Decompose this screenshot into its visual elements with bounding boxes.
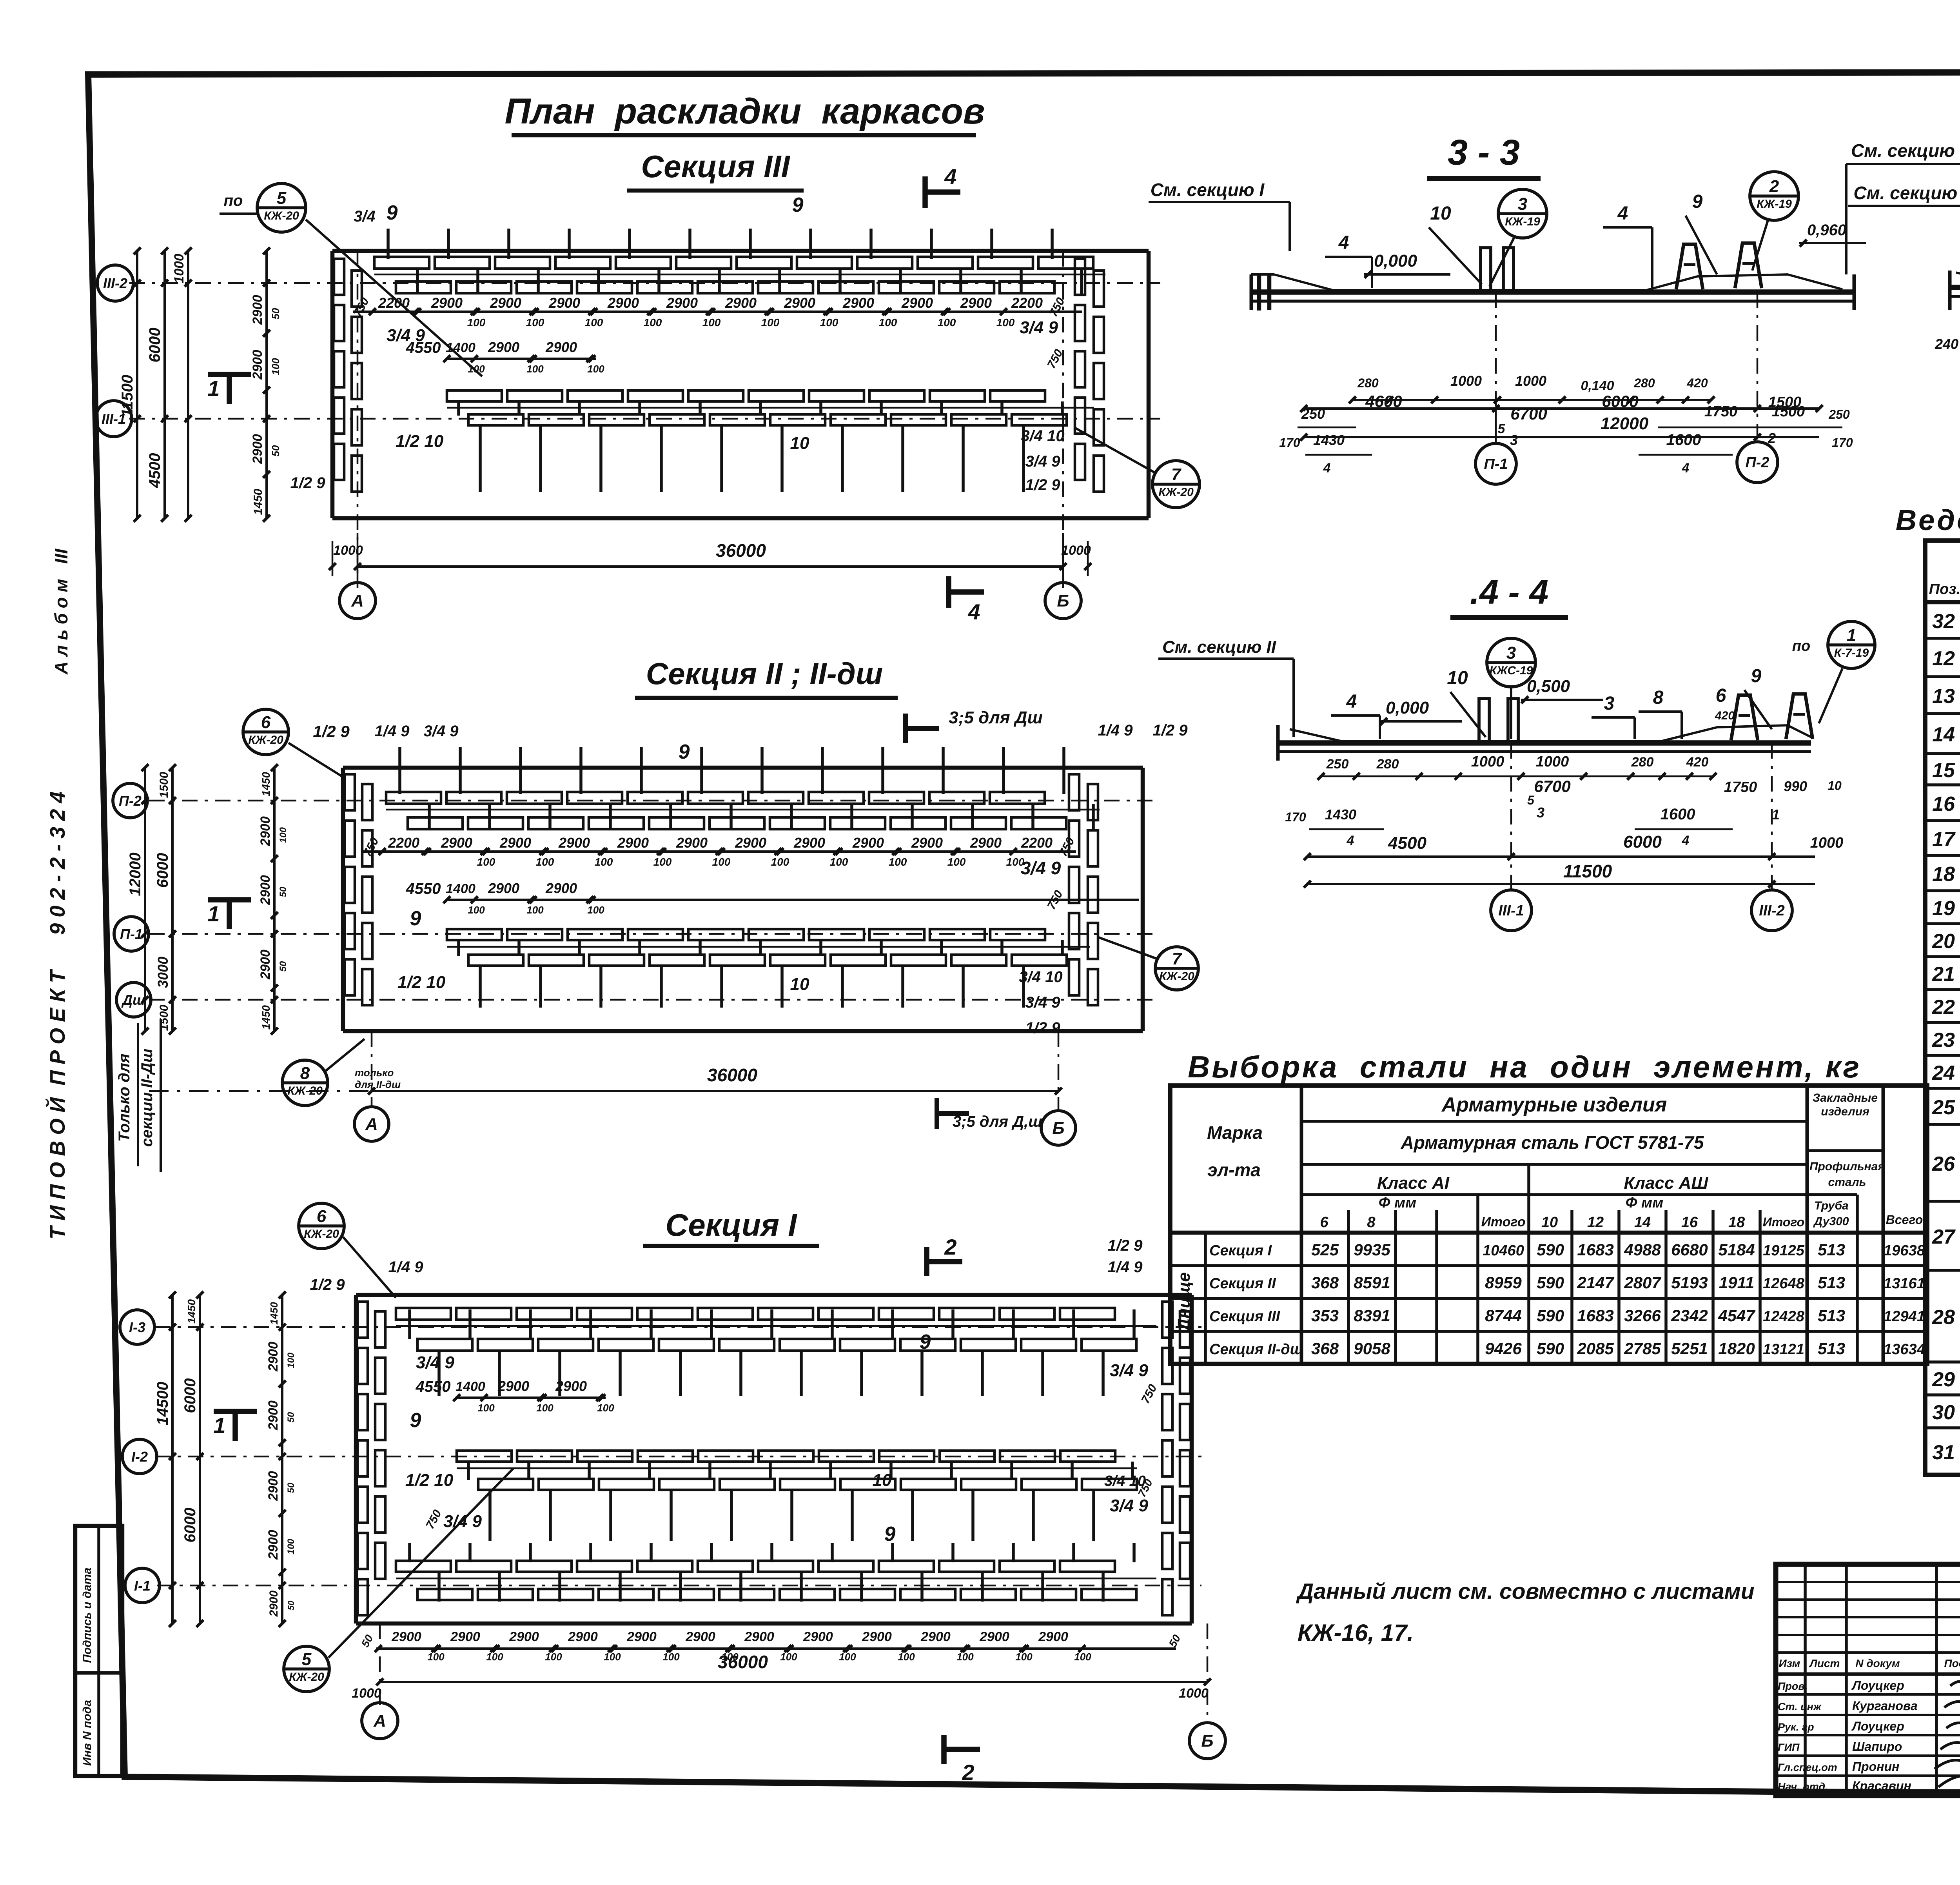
svg-text:100: 100 <box>820 316 838 329</box>
svg-text:14500: 14500 <box>154 1382 171 1425</box>
svg-text:9426: 9426 <box>1485 1339 1522 1358</box>
plan III axis circle B <box>1045 583 1081 619</box>
svg-text:590: 590 <box>1537 1273 1564 1292</box>
svg-text:0,000: 0,000 <box>1386 698 1429 717</box>
svg-text:1600: 1600 <box>1666 431 1701 449</box>
svg-text:3/4 9: 3/4 9 <box>1025 994 1061 1011</box>
svg-text:См. секцию I: См. секцию I <box>1151 180 1265 200</box>
plan view Sektsiya III band outline <box>332 149 1149 518</box>
section 5-5 see section III note <box>1846 140 1960 274</box>
plan I bottom 36000 dimension <box>352 1652 1211 1701</box>
plan III band inner chord lines <box>374 274 1105 408</box>
svg-text:Б: Б <box>1052 1119 1064 1138</box>
svg-text:1: 1 <box>1847 626 1856 645</box>
svg-text:7: 7 <box>1171 465 1182 484</box>
svg-text:1000: 1000 <box>172 254 187 283</box>
svg-text:2900: 2900 <box>266 1400 281 1431</box>
svg-text:2200: 2200 <box>388 835 419 851</box>
svg-text:100: 100 <box>278 827 289 843</box>
section 4-4 axis circle III-2 <box>1751 743 1792 931</box>
plan view Sektsiya II title <box>635 656 898 698</box>
svg-text:КЖ-20: КЖ-20 <box>1158 486 1194 499</box>
svg-text:420: 420 <box>1686 755 1709 770</box>
svg-text:1430: 1430 <box>1313 432 1345 448</box>
svg-text:2900: 2900 <box>617 835 649 851</box>
svg-text:4547: 4547 <box>1718 1306 1755 1325</box>
plan II axis circle B bottom <box>1041 1111 1076 1145</box>
svg-text:100: 100 <box>604 1651 621 1663</box>
svg-text:100: 100 <box>839 1651 856 1663</box>
svg-text:513: 513 <box>1818 1273 1845 1292</box>
svg-text:21: 21 <box>1932 963 1955 986</box>
svg-text:12648: 12648 <box>1763 1275 1805 1292</box>
svg-text:Арматурная сталь ГОСТ 5781-75: Арматурная сталь ГОСТ 5781-75 <box>1401 1132 1704 1153</box>
section 4-4 posts <box>1479 699 1518 742</box>
plan II bottom mark 3-5 for Dsh <box>937 1098 1042 1130</box>
svg-text:11500: 11500 <box>119 375 136 417</box>
svg-text:1000: 1000 <box>1515 373 1546 389</box>
title block left labels <box>1778 1657 1960 1793</box>
svg-text:Поз.: Поз. <box>1929 581 1960 597</box>
svg-text:2900: 2900 <box>258 816 273 846</box>
svg-text:100: 100 <box>270 358 281 375</box>
svg-text:3/4 9: 3/4 9 <box>1020 318 1058 337</box>
svg-text:Нач. отд.: Нач. отд. <box>1778 1781 1828 1792</box>
plan I axis lines <box>155 1327 1207 1717</box>
svg-text:3/4 10: 3/4 10 <box>1019 968 1062 986</box>
plan I left dim chains <box>154 1291 296 1627</box>
svg-text:См. секцию III: См. секцию III <box>1851 140 1960 161</box>
svg-text:I-2: I-2 <box>131 1449 148 1465</box>
svg-text:13121: 13121 <box>1763 1341 1804 1358</box>
svg-text:12941: 12941 <box>1884 1308 1925 1325</box>
svg-text:8959: 8959 <box>1485 1273 1522 1292</box>
svg-text:6700: 6700 <box>1534 777 1570 795</box>
svg-text:1750: 1750 <box>1704 403 1738 420</box>
section 4-4 leader circle 3 KZh-19 <box>1487 638 1535 739</box>
svg-text:50: 50 <box>270 308 281 319</box>
section 4-4 trestles right <box>1731 694 1813 740</box>
svg-text:280: 280 <box>1357 376 1379 390</box>
plan II inner labels <box>313 722 1188 1037</box>
svg-text:250: 250 <box>1828 407 1850 421</box>
plan I left end vertical cages <box>358 1302 385 1615</box>
svg-text:100: 100 <box>1074 1651 1091 1663</box>
svg-text:27: 27 <box>1932 1226 1956 1248</box>
svg-text:III-2: III-2 <box>1759 903 1784 919</box>
plan I band inner chord lines <box>396 1326 1156 1578</box>
section 3-3 labels above <box>1325 191 1866 288</box>
svg-text:2900: 2900 <box>960 295 992 311</box>
svg-text:2900: 2900 <box>970 835 1002 851</box>
svg-text:2900: 2900 <box>499 835 531 851</box>
svg-text:8391: 8391 <box>1354 1306 1390 1325</box>
plan II axis lines <box>149 801 1152 1110</box>
svg-text:1000: 1000 <box>1536 754 1569 770</box>
plan II axis circle A bottom <box>354 1107 389 1141</box>
svg-text:ГИП: ГИП <box>1778 1742 1800 1753</box>
svg-text:КЖС-19: КЖС-19 <box>1490 664 1533 677</box>
svg-text:Лист: Лист <box>1809 1657 1840 1669</box>
svg-text:А л ь б о м III: А л ь б о м III <box>51 548 71 675</box>
svg-text:См. секцию II: См. секцию II <box>1853 183 1960 203</box>
svg-text:4: 4 <box>1338 232 1349 253</box>
svg-text:16: 16 <box>1932 793 1955 815</box>
plan III leader circle 5 KZh-20 <box>220 183 482 376</box>
svg-text:3;5 для Д,ш: 3;5 для Д,ш <box>953 1113 1042 1130</box>
svg-text:Ведомость стержней на 1 эле: Ведомость стержней на 1 элемент <box>1896 504 1960 536</box>
section 3-3 slab <box>1251 274 1854 310</box>
svg-text:100: 100 <box>889 856 907 868</box>
svg-text:10460: 10460 <box>1483 1242 1524 1259</box>
svg-text:КЖ-20: КЖ-20 <box>248 734 283 746</box>
plan I axis circle A bottom <box>362 1703 398 1739</box>
svg-text:6000: 6000 <box>1602 392 1638 410</box>
svg-text:2900: 2900 <box>431 295 463 311</box>
svg-text:3/4 9: 3/4 9 <box>424 723 459 740</box>
svg-text:50: 50 <box>270 445 281 456</box>
svg-text:29: 29 <box>1932 1368 1955 1391</box>
svg-text:5: 5 <box>277 189 287 208</box>
section 3-3 axis circle P-1 <box>1475 292 1516 484</box>
svg-text:2900: 2900 <box>558 835 590 851</box>
svg-text:Шапиро: Шапиро <box>1852 1740 1902 1754</box>
svg-text:1/4 9: 1/4 9 <box>1108 1258 1143 1276</box>
svg-text:1: 1 <box>207 901 220 926</box>
plan II top cage rows <box>386 747 1093 830</box>
svg-text:10: 10 <box>1447 668 1468 688</box>
svg-text:КЖ-19: КЖ-19 <box>1505 215 1540 228</box>
svg-text:525: 525 <box>1311 1240 1339 1259</box>
svg-text:36000: 36000 <box>718 1652 768 1672</box>
plan III axis circle III-2 <box>97 265 133 301</box>
svg-text:Красавин: Красавин <box>1852 1779 1911 1793</box>
svg-text:Только для: Только для <box>116 1054 133 1142</box>
svg-text:Секция III: Секция III <box>1209 1308 1281 1325</box>
svg-text:4550: 4550 <box>406 880 441 897</box>
svg-text:Днище: Днище <box>1174 1272 1194 1333</box>
section 4-4 slab <box>1278 725 1811 761</box>
plan I axis circle B bottom <box>1189 1723 1225 1759</box>
svg-text:170: 170 <box>1832 436 1853 450</box>
svg-text:100: 100 <box>526 363 544 375</box>
svg-text:1/2 9: 1/2 9 <box>1025 1019 1061 1037</box>
plan II top dimension chain <box>361 835 1077 868</box>
svg-text:3/4 9: 3/4 9 <box>1110 1496 1148 1515</box>
left margin vertical text: album <box>51 548 71 675</box>
svg-text:0,000: 0,000 <box>1374 251 1417 271</box>
svg-text:100: 100 <box>595 856 613 868</box>
svg-text:100: 100 <box>712 856 731 868</box>
svg-text:III-1: III-1 <box>1498 903 1524 919</box>
svg-text:513: 513 <box>1818 1339 1845 1358</box>
svg-text:КЖ-20: КЖ-20 <box>1159 970 1194 983</box>
plan I inner labels <box>310 1237 1160 1545</box>
svg-text:10: 10 <box>790 975 809 994</box>
svg-text:1400: 1400 <box>456 1379 485 1394</box>
section 4-4 overall dims <box>1304 832 1843 888</box>
svg-text:0,960: 0,960 <box>1807 222 1846 239</box>
svg-text:сталь: сталь <box>1828 1176 1866 1189</box>
plan I right end vertical cages <box>1162 1302 1190 1615</box>
svg-text:1911: 1911 <box>1719 1273 1754 1292</box>
svg-text:7: 7 <box>1172 949 1183 968</box>
svg-text:2900: 2900 <box>548 295 580 311</box>
svg-text:5: 5 <box>302 1650 312 1669</box>
svg-text:8: 8 <box>300 1064 310 1083</box>
svg-text:Инв N пода: Инв N пода <box>81 1700 94 1766</box>
svg-text:100: 100 <box>947 856 966 868</box>
svg-text:1500: 1500 <box>158 772 171 798</box>
svg-text:П-1: П-1 <box>1484 456 1508 472</box>
svg-text:0,140: 0,140 <box>1581 378 1614 393</box>
svg-text:20: 20 <box>1932 930 1955 953</box>
svg-text:1450: 1450 <box>260 772 272 796</box>
svg-text:2900: 2900 <box>509 1629 539 1644</box>
svg-text:36000: 36000 <box>716 540 766 561</box>
title block left grid <box>1776 1564 1960 1796</box>
svg-text:280: 280 <box>1376 757 1399 772</box>
svg-text:22: 22 <box>1932 996 1955 1019</box>
svg-text:5: 5 <box>1527 793 1535 807</box>
svg-text:4550: 4550 <box>416 1378 451 1395</box>
svg-text:30: 30 <box>1932 1401 1955 1424</box>
svg-text:КЖ-16, 17.: КЖ-16, 17. <box>1298 1620 1414 1646</box>
svg-text:25: 25 <box>1932 1096 1955 1119</box>
svg-text:1000: 1000 <box>1810 835 1844 851</box>
svg-text:1450: 1450 <box>260 1005 272 1030</box>
plan III axis lines <box>129 251 1160 588</box>
note: see sheets KZh-16-17 <box>1296 1579 1755 1646</box>
plan III middle cage rows <box>447 390 1067 492</box>
svg-text:2900: 2900 <box>735 835 766 851</box>
svg-text:Выборка стали на один элем: Выборка стали на один элемент, кг <box>1188 1050 1861 1084</box>
svg-text:2900: 2900 <box>862 1629 892 1644</box>
table vyborka row values <box>1209 1240 1926 1358</box>
plan II band outline <box>343 768 1143 1031</box>
svg-text:2807: 2807 <box>1624 1273 1661 1292</box>
svg-text:50: 50 <box>286 1600 296 1610</box>
svg-text:I-3: I-3 <box>129 1319 145 1335</box>
svg-text:2900: 2900 <box>490 295 521 311</box>
plan II left dim chains <box>127 764 289 1035</box>
svg-text:3: 3 <box>1510 432 1518 448</box>
svg-text:2900: 2900 <box>250 350 265 380</box>
svg-text:2900: 2900 <box>725 295 757 311</box>
svg-text:50: 50 <box>278 961 289 972</box>
section 4-4 axis circle III-1 <box>1491 743 1532 931</box>
plan II cut mark 1 <box>207 900 251 929</box>
svg-text:Т И П О В О Й П Р О Е К Т: Т И П О В О Й П Р О Е К Т 9 0 2 - 2 - 3 … <box>45 792 69 1240</box>
section 5-5 slab <box>1950 271 1960 310</box>
svg-text:Данный лист см. совместно с л: Данный лист см. совместно с листами <box>1296 1579 1755 1604</box>
svg-text:Подпись: Подпись <box>1944 1657 1960 1669</box>
svg-text:4: 4 <box>1617 203 1628 224</box>
table vedomost title <box>1896 504 1960 536</box>
svg-text:100: 100 <box>286 1538 296 1554</box>
svg-text:6000: 6000 <box>181 1378 199 1413</box>
svg-text:1/4 9: 1/4 9 <box>1098 722 1133 739</box>
svg-text:2900: 2900 <box>266 1342 281 1372</box>
svg-text:1: 1 <box>213 1413 225 1438</box>
plan II leader circle 6 KZh-20 <box>243 709 345 778</box>
svg-text:100: 100 <box>938 316 956 329</box>
svg-text:Лоуцкер: Лоуцкер <box>1851 1719 1904 1733</box>
svg-text:1450: 1450 <box>252 489 265 515</box>
svg-text:3/4 9: 3/4 9 <box>1021 858 1061 878</box>
section 5-5 dim rows <box>1935 302 1960 427</box>
svg-text:19125: 19125 <box>1763 1242 1805 1259</box>
svg-text:353: 353 <box>1311 1306 1339 1325</box>
plan I band outline <box>356 1295 1192 1623</box>
main title <box>505 91 985 135</box>
svg-text:3;5 для Дш: 3;5 для Дш <box>949 708 1042 727</box>
left margin vertical text: project number <box>45 792 69 1240</box>
plan III leader circle 7 KZh-20 <box>1074 427 1200 508</box>
svg-text:А: А <box>373 1711 386 1731</box>
svg-text:3 - 3: 3 - 3 <box>1448 133 1520 173</box>
svg-text:2900: 2900 <box>488 880 519 896</box>
svg-text:1000: 1000 <box>1061 543 1091 558</box>
plan I top cage rows <box>396 1308 1136 1396</box>
svg-text:17: 17 <box>1932 828 1956 851</box>
section 4-4 dim rows <box>1285 754 1842 848</box>
table vedomost grid <box>1925 541 1960 1475</box>
svg-text:2147: 2147 <box>1577 1273 1614 1292</box>
svg-text:513: 513 <box>1818 1306 1845 1325</box>
section 4-4 leader line from see note <box>1292 717 1295 737</box>
svg-text:П-2: П-2 <box>119 793 142 809</box>
svg-text:4: 4 <box>1682 833 1690 848</box>
svg-text:3/4 9: 3/4 9 <box>416 1353 454 1372</box>
svg-text:3: 3 <box>1518 194 1527 214</box>
bottom-left stamp box <box>75 1526 122 1776</box>
svg-text:Класс АI: Класс АI <box>1377 1173 1450 1193</box>
svg-text:Дш: Дш <box>121 992 145 1008</box>
svg-text:9: 9 <box>1692 191 1703 212</box>
svg-text:1/4 9: 1/4 9 <box>375 723 410 740</box>
plan I middle cage rows <box>457 1451 1137 1541</box>
svg-text:2900: 2900 <box>450 1629 480 1644</box>
svg-text:эл-та: эл-та <box>1207 1160 1261 1180</box>
svg-text:К-7-19: К-7-19 <box>1834 646 1869 659</box>
svg-text:См. секцию II: См. секцию II <box>1162 637 1276 657</box>
svg-text:2900: 2900 <box>497 1378 529 1394</box>
svg-text:14: 14 <box>1932 723 1955 746</box>
svg-text:Секция I: Секция I <box>1209 1242 1272 1259</box>
title block signatures <box>1935 1682 1960 1790</box>
section 3-3 leader circle 2 KZh-19 <box>1750 172 1798 271</box>
svg-text:2900: 2900 <box>666 295 698 311</box>
svg-text:2900: 2900 <box>267 1590 280 1617</box>
svg-text:для II-дш: для II-дш <box>355 1079 401 1090</box>
svg-text:Закладные: Закладные <box>1813 1091 1878 1104</box>
table vyborka grid <box>1170 1086 1927 1364</box>
svg-text:Изм: Изм <box>1779 1657 1800 1669</box>
plan II bottom 36000 dimension <box>149 1065 1062 1095</box>
svg-text:100: 100 <box>587 363 604 375</box>
svg-text:250: 250 <box>1326 757 1349 772</box>
plan II middle cage rows <box>447 929 1067 1008</box>
svg-text:по: по <box>224 192 243 209</box>
svg-text:100: 100 <box>956 1651 974 1663</box>
svg-text:Секция II-дш: Секция II-дш <box>1209 1341 1303 1358</box>
svg-text:9: 9 <box>410 907 421 930</box>
svg-text:18: 18 <box>1932 863 1955 886</box>
svg-text:9: 9 <box>884 1523 896 1545</box>
svg-text:2900: 2900 <box>555 1378 587 1394</box>
svg-text:III-2: III-2 <box>103 275 127 291</box>
svg-text:Подпись и дата: Подпись и дата <box>81 1567 94 1663</box>
svg-text:590: 590 <box>1537 1240 1564 1259</box>
plan III second dimension chain 4550-1400-2900 <box>406 339 605 375</box>
svg-text:36000: 36000 <box>707 1065 757 1085</box>
svg-text:2900: 2900 <box>901 295 933 311</box>
svg-text:12: 12 <box>1587 1214 1604 1231</box>
svg-text:8591: 8591 <box>1354 1273 1390 1292</box>
svg-text:19638: 19638 <box>1884 1242 1926 1259</box>
svg-text:8744: 8744 <box>1485 1306 1521 1325</box>
svg-text:100: 100 <box>585 316 603 329</box>
svg-text:10: 10 <box>1541 1214 1558 1231</box>
svg-text:1000: 1000 <box>352 1686 381 1701</box>
svg-text:1/4 9: 1/4 9 <box>388 1258 424 1276</box>
svg-text:Ст. инж: Ст. инж <box>1778 1701 1822 1712</box>
plan III see section I note <box>1149 180 1290 251</box>
svg-text:секции II-Дш: секции II-Дш <box>138 1049 156 1147</box>
svg-text:5: 5 <box>1498 421 1506 436</box>
svg-text:31: 31 <box>1932 1441 1955 1464</box>
svg-text:280: 280 <box>1631 755 1654 770</box>
svg-text:3: 3 <box>1604 693 1615 714</box>
svg-text:3/4 9: 3/4 9 <box>1110 1361 1148 1380</box>
svg-text:2900: 2900 <box>545 339 577 355</box>
plan II axis circle P-2 <box>113 783 147 818</box>
svg-text:4: 4 <box>967 599 980 624</box>
svg-text:1/2 10: 1/2 10 <box>405 1471 454 1490</box>
svg-text:513: 513 <box>1818 1240 1845 1259</box>
svg-text:9: 9 <box>679 741 690 763</box>
svg-text:1000: 1000 <box>1471 754 1504 770</box>
plan I cut mark 2 bottom <box>944 1735 980 1785</box>
svg-text:3: 3 <box>1537 804 1544 821</box>
svg-text:6: 6 <box>1320 1214 1328 1231</box>
svg-text:1430: 1430 <box>1325 806 1356 823</box>
svg-text:9: 9 <box>920 1331 931 1353</box>
svg-text:12000: 12000 <box>1601 414 1649 433</box>
svg-text:6: 6 <box>1716 685 1726 706</box>
svg-text:100: 100 <box>536 856 554 868</box>
svg-text:Класс АШ: Класс АШ <box>1624 1173 1709 1193</box>
svg-text:КЖ-20: КЖ-20 <box>289 1671 324 1683</box>
svg-text:2900: 2900 <box>258 950 273 980</box>
svg-text:1/2 9: 1/2 9 <box>1108 1237 1143 1254</box>
svg-text:Курганова: Курганова <box>1852 1699 1918 1713</box>
svg-text:2200: 2200 <box>1011 295 1043 311</box>
section 3-3 trestles right <box>1676 243 1762 289</box>
svg-text:Секция II: Секция II <box>1209 1275 1276 1292</box>
plan II leader circle 7 right <box>1098 937 1198 990</box>
svg-text:14: 14 <box>1634 1214 1651 1231</box>
svg-text:2085: 2085 <box>1577 1339 1614 1358</box>
svg-text:Марка: Марка <box>1207 1122 1263 1143</box>
svg-text:4: 4 <box>1682 461 1690 476</box>
svg-text:13: 13 <box>1932 685 1955 708</box>
svg-text:Б: Б <box>1057 591 1069 610</box>
svg-text:6000: 6000 <box>146 328 163 363</box>
svg-text:1600: 1600 <box>1661 806 1695 823</box>
svg-text:Б: Б <box>1201 1731 1213 1751</box>
